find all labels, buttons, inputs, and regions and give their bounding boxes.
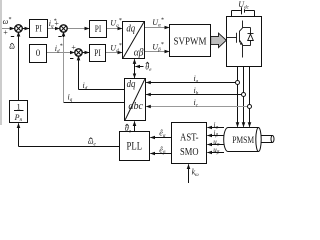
- svg-text:dq: dq: [127, 79, 136, 90]
- svg-text:SMO: SMO: [180, 146, 199, 158]
- svg-text:kω: kω: [192, 167, 200, 178]
- svg-text:Uα*: Uα*: [152, 17, 163, 28]
- svg-text:αβ: αβ: [134, 47, 144, 58]
- svg-text:iβ: iβ: [214, 129, 219, 138]
- svg-text:+: +: [54, 19, 59, 28]
- svg-text:+: +: [71, 43, 76, 52]
- svg-text:1: 1: [17, 102, 21, 111]
- svg-text:Udc: Udc: [238, 0, 249, 11]
- svg-text:ω*: ω*: [3, 17, 12, 26]
- svg-text:ic: ic: [194, 98, 199, 109]
- svg-text:PI: PI: [94, 49, 101, 59]
- svg-text:id: id: [83, 81, 88, 92]
- svg-text:ωe: ωe: [88, 137, 97, 148]
- svg-text:PI: PI: [35, 25, 42, 35]
- svg-text:ia: ia: [194, 74, 199, 85]
- svg-text:+: +: [3, 28, 8, 37]
- svg-text:PLL: PLL: [127, 138, 143, 152]
- svg-text:êα: êα: [159, 128, 166, 139]
- svg-text:SVPWM: SVPWM: [174, 37, 208, 48]
- svg-text:uβ: uβ: [213, 146, 220, 155]
- svg-text:Uq*: Uq*: [110, 18, 121, 29]
- svg-text:abc: abc: [128, 101, 143, 112]
- svg-text:êβ: êβ: [159, 145, 166, 156]
- svg-text:0: 0: [36, 48, 41, 58]
- svg-text:ib: ib: [194, 86, 199, 97]
- svg-text:PMSM: PMSM: [232, 136, 254, 146]
- svg-text:iq: iq: [68, 93, 73, 104]
- svg-text:Pn: Pn: [14, 113, 23, 123]
- svg-text:dq: dq: [126, 23, 135, 34]
- svg-text:PI: PI: [95, 25, 102, 35]
- svg-text:AST-: AST-: [180, 132, 199, 144]
